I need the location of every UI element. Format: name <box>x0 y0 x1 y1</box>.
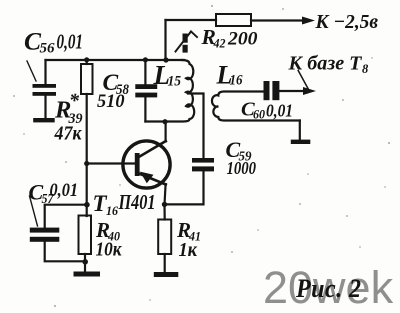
capacitor C57 plates <box>30 228 60 242</box>
resistor R41 leads <box>163 204 165 219</box>
svg-text:8: 8 <box>362 62 369 76</box>
wire collector riser <box>165 122 167 142</box>
label R42 200 <box>201 25 259 51</box>
resistor R42 <box>216 14 251 26</box>
capacitor C59 lead bottom <box>165 171 204 204</box>
capacitor C60 plates <box>264 81 280 100</box>
inductor L16 <box>212 92 300 121</box>
svg-text:47к: 47к <box>54 124 83 145</box>
capacitor C56 lead bottom <box>44 96 46 118</box>
wire top node rail <box>46 59 185 61</box>
label C56 leader <box>27 61 36 81</box>
wire top rail left segment <box>166 19 217 21</box>
transistor emitter arrowhead <box>140 172 154 184</box>
svg-text:0,01: 0,01 <box>266 101 293 121</box>
wire C60 to arrow <box>279 90 304 92</box>
transistor emitter stroke <box>139 174 166 185</box>
wire tap L15 to C59 <box>188 94 204 158</box>
ground under R41 <box>154 272 179 277</box>
svg-text:1к: 1к <box>179 240 199 261</box>
label R40 10k <box>95 218 122 261</box>
label C58 510 <box>97 70 130 112</box>
label C59 1000 <box>226 137 257 178</box>
wire L16 to ground <box>299 121 301 140</box>
label C57 0,01 <box>29 180 79 207</box>
svg-text:*: * <box>69 90 80 112</box>
transistor base bar <box>135 153 140 176</box>
svg-text:10к: 10к <box>96 240 123 261</box>
ground under L16 <box>291 140 311 144</box>
wire emitter riser <box>165 184 166 204</box>
wire rail to arrow <box>251 19 304 21</box>
svg-text:П401: П401 <box>118 190 156 214</box>
wire base column down <box>86 164 88 217</box>
wire L15 bottom / collector junction <box>162 119 167 124</box>
svg-text:15: 15 <box>168 74 182 90</box>
junction node C57 bottom <box>82 259 88 265</box>
resistor R40 bottom lead <box>84 254 86 272</box>
resistor R39 leads <box>86 60 88 64</box>
svg-text:60: 60 <box>253 107 265 122</box>
capacitor C57 bottom wire <box>45 241 85 261</box>
arrowhead to -2,5v <box>302 17 315 25</box>
ground under C56 <box>33 118 55 122</box>
label C56 0,01 <box>24 27 83 57</box>
resistor R39 body <box>81 64 93 94</box>
junction node base <box>84 161 89 166</box>
capacitor C58 plates <box>135 84 157 97</box>
arrowhead to base T8 <box>303 87 316 95</box>
label R39* 47k <box>54 90 83 145</box>
capacitor C57 top wire <box>45 205 87 228</box>
transistor base lead <box>87 162 136 164</box>
label R41 1k <box>176 218 201 261</box>
junction node emitter <box>162 202 167 207</box>
svg-text:56: 56 <box>40 41 56 57</box>
label T16 P401 <box>93 190 156 218</box>
svg-text:К базе Т: К базе Т <box>287 53 362 75</box>
label K baze T8 <box>287 53 369 77</box>
svg-text:200: 200 <box>227 29 258 50</box>
wire riser from top node to rail <box>164 20 166 60</box>
label C60 0,01 <box>241 99 293 122</box>
svg-text:42: 42 <box>213 36 226 51</box>
capacitor C59 plates <box>192 158 214 171</box>
svg-text:1000: 1000 <box>227 158 257 178</box>
svg-text:Рис. 2: Рис. 2 <box>295 274 361 303</box>
inductor L15 <box>145 60 194 122</box>
svg-text:К −2,5в: К −2,5в <box>315 11 379 33</box>
label K base T8 leader <box>298 71 309 91</box>
junction node R39 top <box>84 57 89 62</box>
label L15 <box>153 60 182 90</box>
capacitor C56 lead top <box>44 60 46 84</box>
capacitor C58 lead top <box>144 60 146 84</box>
svg-text:510: 510 <box>97 91 125 112</box>
junction node at riser <box>163 57 168 62</box>
capacitor C58 lead bottom <box>144 96 146 122</box>
resistor R40 body <box>79 216 92 255</box>
trimmer adjust arrow <box>176 32 198 52</box>
capacitor C56 plates <box>33 84 57 96</box>
junction node C58 top <box>143 57 148 62</box>
svg-text:0,01: 0,01 <box>50 181 79 201</box>
junction node C57 top <box>84 202 90 208</box>
transistor T16 circle <box>123 141 170 188</box>
svg-text:16: 16 <box>230 73 244 89</box>
svg-text:16: 16 <box>106 203 118 218</box>
resistor R41 body <box>158 220 171 255</box>
svg-text:0,01: 0,01 <box>57 30 84 54</box>
transistor collector stroke <box>138 141 166 158</box>
label L16 <box>216 61 244 90</box>
trimmer adjust symbol bar <box>183 34 188 43</box>
ground under R40 <box>74 272 101 277</box>
label C57 leader <box>30 196 38 226</box>
